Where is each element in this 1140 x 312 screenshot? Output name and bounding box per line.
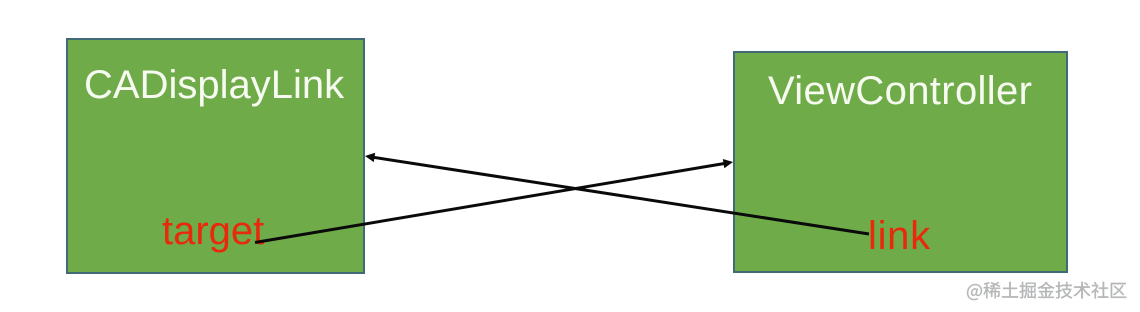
arrowhead at CADisplayLink bbox=[365, 153, 375, 162]
wire link to CADisplayLink bbox=[371, 157, 869, 234]
arrowhead at ViewController bbox=[723, 159, 733, 168]
svg-text:CADisplayLink: CADisplayLink bbox=[84, 63, 345, 107]
wire target to ViewController bbox=[255, 163, 727, 243]
watermark bbox=[967, 282, 1126, 300]
svg-text:target: target bbox=[162, 209, 264, 253]
box ViewController bbox=[734, 52, 1067, 272]
box CADisplayLink bbox=[67, 39, 364, 273]
svg-text:link: link bbox=[868, 214, 931, 258]
svg-text:ViewController: ViewController bbox=[768, 69, 1032, 113]
